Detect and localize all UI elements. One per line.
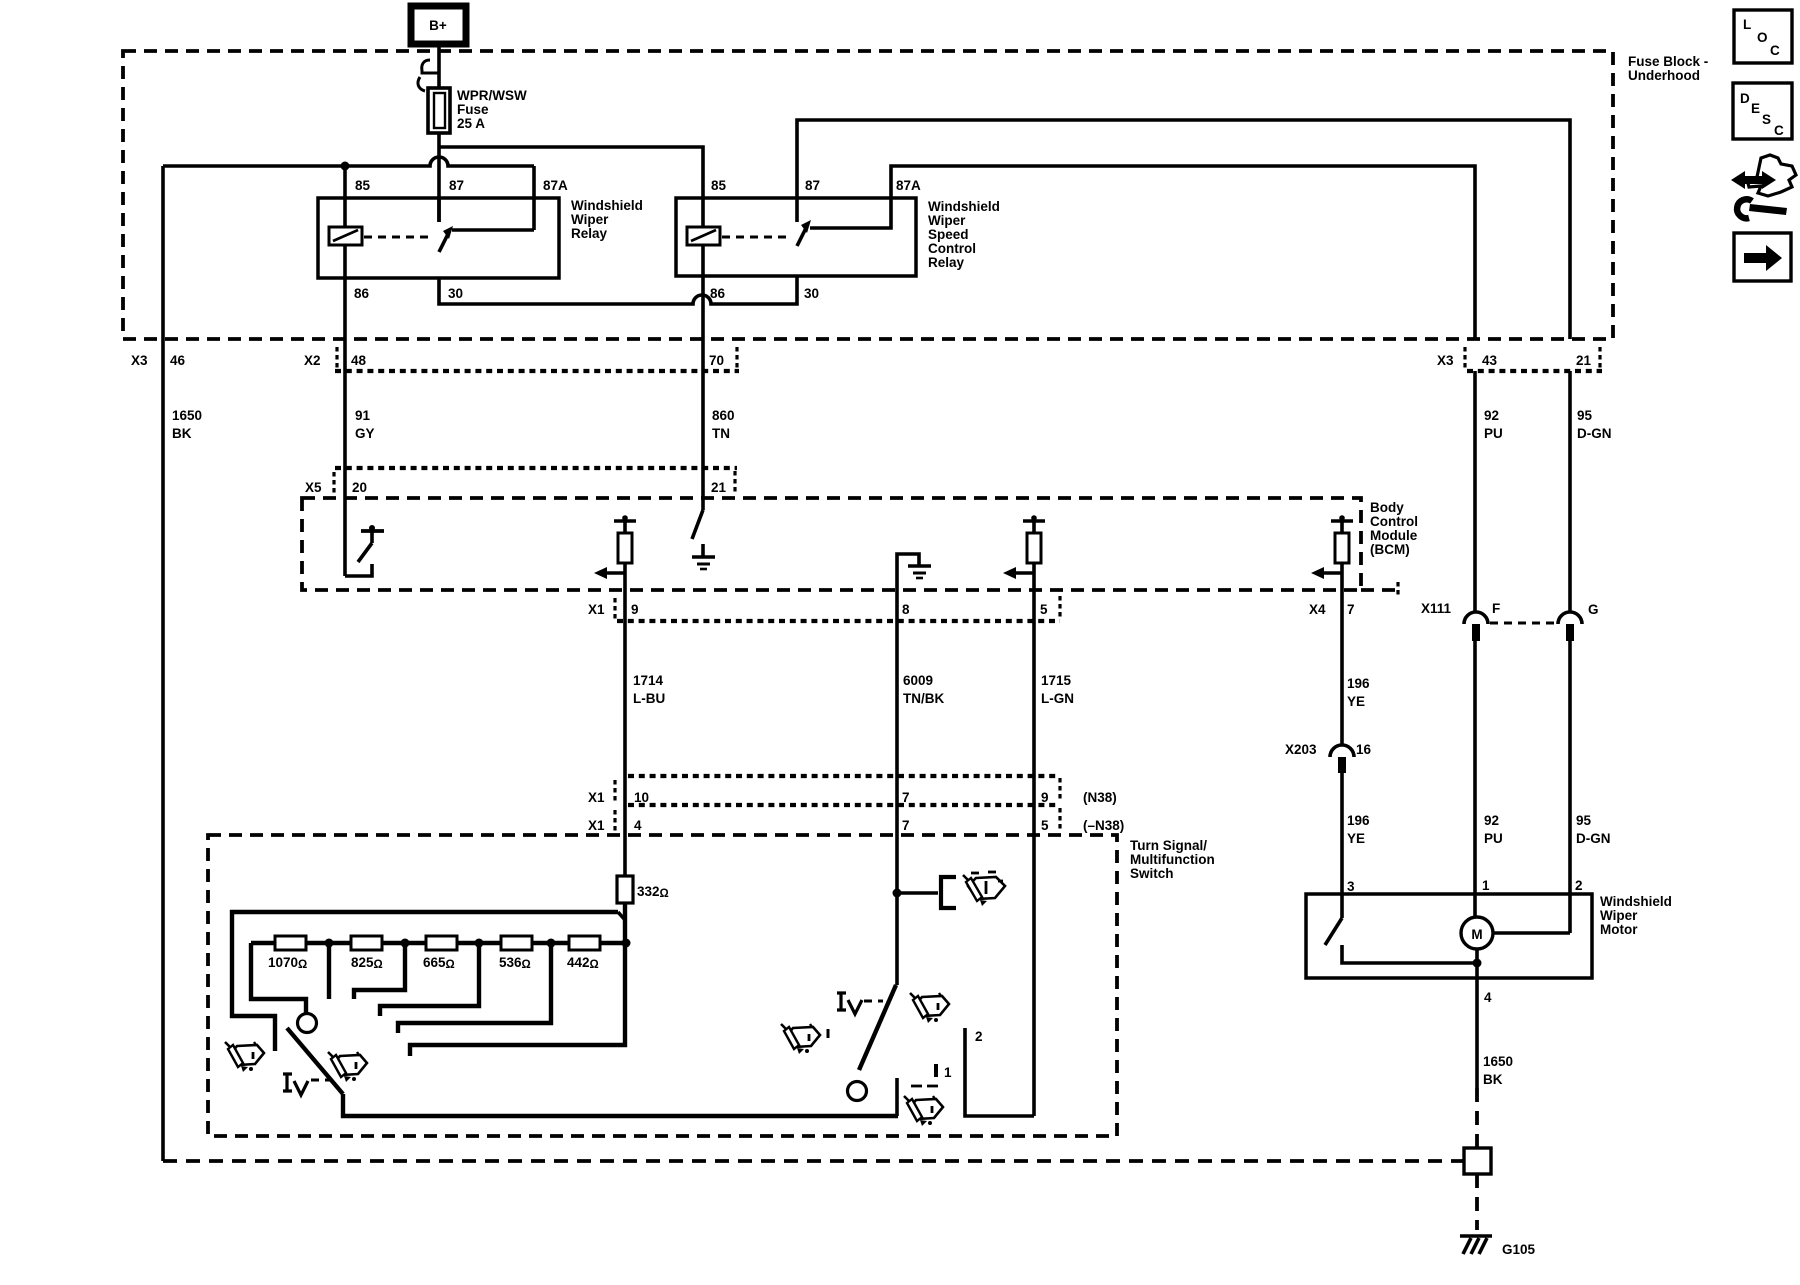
svg-text:X203: X203 (1285, 742, 1317, 757)
svg-text:(–N38): (–N38) (1083, 818, 1124, 833)
svg-text:Windshield: Windshield (1600, 894, 1672, 909)
wire: 6009 TN/BK X1-8 down (895, 590, 899, 985)
svg-text:4: 4 (1484, 990, 1492, 1005)
wiper icon wash left (781, 1024, 820, 1054)
svg-text:1650: 1650 (1483, 1054, 1513, 1069)
mist dashes and icon bottom (911, 1085, 922, 1088)
ground G105 (1460, 1234, 1492, 1238)
wash switch mist contact branch (893, 889, 902, 898)
svg-text:1714: 1714 (633, 673, 664, 688)
svg-text:Motor: Motor (1600, 922, 1638, 937)
svg-text:860: 860 (712, 408, 735, 423)
svg-text:Speed: Speed (928, 227, 969, 242)
svg-text:X1: X1 (588, 602, 605, 617)
svg-text:G: G (1588, 602, 1599, 617)
mist contact bracket (941, 877, 956, 908)
svg-text:70: 70 (709, 353, 724, 368)
legend LOC box (1734, 10, 1792, 63)
relay K1 coil (329, 227, 362, 245)
svg-text:Fuse Block -: Fuse Block - (1628, 54, 1708, 69)
svg-text:Switch: Switch (1130, 866, 1174, 881)
wire: tap 2 contact step (354, 943, 405, 999)
BCM internal ground for 6009 TN/BK (897, 554, 919, 590)
svg-text:YE: YE (1347, 694, 1365, 709)
svg-text:7: 7 (902, 818, 910, 833)
connector row X2 dotted face (335, 369, 739, 373)
BCM wiper relay driver switch (361, 529, 384, 533)
svg-text:D: D (1740, 91, 1750, 106)
connector row X1 pins 4 7 5 (-N38) (628, 803, 1056, 807)
svg-text:9: 9 (1041, 790, 1049, 805)
resistor 332 ohm (617, 876, 633, 903)
svg-text:D-GN: D-GN (1576, 831, 1611, 846)
wire: 92 PU to motor pin 1 (1473, 641, 1477, 917)
wire: tap 3 contact step (380, 943, 479, 1016)
wire: tap 4 contact step (398, 943, 551, 1033)
svg-text:Module: Module (1370, 528, 1418, 543)
intermittent symbol left (283, 1074, 292, 1091)
legend forward arrow box (1734, 233, 1791, 281)
relay K1 87A contact bar (452, 228, 534, 232)
svg-text:D-GN: D-GN (1577, 426, 1612, 441)
mist wiper icon top (963, 872, 1005, 906)
turn signal multifunction switch dashed border (208, 835, 1117, 1136)
relay K1 windshield wiper relay box (318, 198, 559, 278)
svg-text:Windshield: Windshield (928, 199, 1000, 214)
svg-text:21: 21 (711, 480, 727, 495)
svg-text:TN: TN (712, 426, 730, 441)
rotary wiper blade (287, 1028, 343, 1094)
svg-text:Multifunction: Multifunction (1130, 852, 1215, 867)
svg-text:1650: 1650 (172, 408, 202, 423)
svg-text:7: 7 (1347, 602, 1355, 617)
svg-text:C: C (1770, 43, 1780, 58)
svg-text:16: 16 (1356, 742, 1372, 757)
wire: 95 D-GN to BCM connector X111 G (1568, 371, 1572, 611)
svg-text:43: 43 (1482, 353, 1498, 368)
svg-text:1715: 1715 (1041, 673, 1072, 688)
wiper icon low position (328, 1052, 367, 1082)
battery feed B+ terminal box (411, 6, 466, 44)
wire: 1650 BK ground wire left column (161, 166, 165, 1161)
top rail of delay ladder (232, 912, 618, 1051)
svg-text:G105: G105 (1502, 1242, 1536, 1257)
svg-text:48: 48 (351, 353, 367, 368)
BCM switch to ground for 860 TN (692, 510, 703, 539)
svg-text:87A: 87A (543, 178, 568, 193)
body control module BCM dashed border (302, 498, 1361, 590)
svg-text:S: S (1762, 112, 1771, 127)
svg-text:L-GN: L-GN (1041, 691, 1074, 706)
wire: relay K2 pin 86 down 860 TN (701, 245, 705, 510)
svg-text:Turn Signal/: Turn Signal/ (1130, 838, 1207, 853)
dashed route to G105 (1475, 1174, 1479, 1230)
svg-text:9: 9 (631, 602, 639, 617)
svg-text:4: 4 (634, 818, 642, 833)
wire: 332 ohm down to ladder junction (410, 903, 625, 1056)
wire: relay K1 87A riser (532, 166, 536, 230)
svg-text:1: 1 (1482, 878, 1490, 893)
svg-text:X111: X111 (1421, 601, 1452, 616)
relay K2 87A contact bar and riser to 92 PU feed (810, 166, 1475, 339)
wire: fuse feed to relay K2 pin 85 (439, 147, 703, 227)
svg-text:Fuse: Fuse (457, 102, 489, 117)
svg-text:X3: X3 (131, 353, 148, 368)
wire: chain left end to position contact (251, 943, 306, 1013)
svg-text:C: C (1774, 123, 1784, 138)
svg-text:(BCM): (BCM) (1370, 542, 1410, 557)
BCM internal resistor to X1-5 driver (1023, 519, 1045, 523)
relay K2 pin 87 stationary contact riser to bus (797, 120, 1570, 339)
svg-text:B+: B+ (429, 18, 447, 33)
svg-text:L: L (1743, 17, 1751, 32)
svg-text:86: 86 (354, 286, 370, 301)
resistor 442 ohm (569, 936, 600, 950)
wire: blade to bottom rail (343, 1094, 898, 1116)
wire: 95 D-GN to motor pin 2 (1568, 641, 1572, 933)
svg-text:YE: YE (1347, 831, 1365, 846)
svg-text:91: 91 (355, 408, 371, 423)
legend DESC box (1733, 83, 1792, 139)
relay K2 windshield wiper speed control relay box (676, 198, 916, 276)
svg-text:95: 95 (1577, 408, 1593, 423)
svg-text:O: O (1757, 30, 1768, 45)
svg-text:Control: Control (1370, 514, 1418, 529)
svg-text:95: 95 (1576, 813, 1592, 828)
svg-text:X3: X3 (1437, 353, 1454, 368)
svg-text:196: 196 (1347, 813, 1370, 828)
svg-text:85: 85 (711, 178, 727, 193)
svg-text:BK: BK (1483, 1072, 1503, 1087)
svg-text:87: 87 (449, 178, 464, 193)
wash rotary contact ring (848, 1082, 867, 1101)
svg-text:21: 21 (1576, 353, 1592, 368)
svg-text:87: 87 (805, 178, 820, 193)
svg-text:86: 86 (710, 286, 726, 301)
wire: motor to pin 2 (1493, 931, 1570, 935)
svg-text:92: 92 (1484, 408, 1499, 423)
node: junction relay K1 pin 85 on bus (341, 162, 350, 171)
svg-text:25 A: 25 A (457, 116, 485, 131)
wire: 92 PU to BCM connector X111 F (1473, 371, 1477, 611)
svg-text:Body: Body (1370, 500, 1404, 515)
svg-text:X5: X5 (305, 480, 322, 495)
wire: 196 YE to motor pin 3 (1340, 773, 1344, 894)
svg-text:2: 2 (975, 1029, 983, 1044)
svg-text:GY: GY (355, 426, 375, 441)
svg-text:Wiper: Wiper (1600, 908, 1638, 923)
contact 2 and wire to 1715 (965, 1028, 1034, 1116)
resistor 1070 ohm (275, 936, 306, 950)
wire: motor pin 4 ground 1650 BK (1475, 963, 1479, 1088)
svg-text:E: E (1751, 101, 1760, 116)
jog from top rail to 332 wire (618, 912, 625, 920)
BCM internal resistor to X4-7 driver (1331, 519, 1353, 523)
svg-text:TN/BK: TN/BK (903, 691, 944, 706)
svg-text:10: 10 (634, 790, 649, 805)
connector row X3 dotted face (1467, 369, 1602, 373)
relay K2 coil (687, 227, 720, 245)
svg-text:1: 1 (944, 1065, 952, 1080)
svg-text:(N38): (N38) (1083, 790, 1117, 805)
svg-text:M: M (1471, 927, 1482, 942)
fuse block underhood dashed border (123, 51, 1613, 339)
wire: relay K1 pin 86 down 91 GY (343, 245, 347, 576)
dashed ground route from left column (163, 1159, 1464, 1163)
svg-text:Relay: Relay (928, 255, 965, 270)
svg-text:6009: 6009 (903, 673, 933, 688)
svg-text:F: F (1492, 601, 1500, 616)
svg-text:BK: BK (172, 426, 192, 441)
svg-text:Windshield: Windshield (571, 198, 643, 213)
wire: relay K1 pin 30 to relay K2 pin 30 with hop (439, 276, 797, 304)
svg-text:X2: X2 (304, 353, 321, 368)
intermittent symbol right (837, 993, 846, 1010)
rotary contact ring (298, 1014, 317, 1033)
svg-text:30: 30 (804, 286, 819, 301)
wash switch blade (859, 985, 896, 1070)
node: motor bottom junction (1473, 959, 1482, 968)
relay K1 pin 87 stationary contact (437, 198, 441, 222)
svg-text:85: 85 (355, 178, 371, 193)
svg-text:WPR/WSW: WPR/WSW (457, 88, 527, 103)
wire: tap 1 contact stub (327, 943, 331, 999)
motor park switch (1340, 894, 1344, 918)
wire: 1714 L-BU X1-9 down to 332 ohm (623, 590, 627, 876)
contact 1 tick and label (934, 1064, 938, 1077)
motor M circle (1461, 917, 1493, 949)
svg-text:X1: X1 (588, 790, 605, 805)
fuse WPR/WSW 25A (428, 88, 450, 133)
relay K2 movable blade (797, 228, 806, 246)
svg-text:3: 3 (1347, 879, 1355, 894)
BCM internal resistor to X1-9 driver (614, 519, 636, 523)
svg-text:5: 5 (1041, 818, 1049, 833)
wire: 196 YE X4-7 down to X203 (1340, 590, 1344, 745)
svg-text:20: 20 (352, 480, 367, 495)
svg-text:L-BU: L-BU (633, 691, 665, 706)
svg-text:PU: PU (1484, 831, 1503, 846)
svg-text:X1: X1 (588, 818, 605, 833)
wire: 1715 L-GN X1-5 down (1032, 590, 1036, 1116)
svg-text:PU: PU (1484, 426, 1503, 441)
svg-text:5: 5 (1040, 602, 1048, 617)
svg-text:7: 7 (902, 790, 910, 805)
svg-text:Wiper: Wiper (571, 212, 609, 227)
windshield wiper motor box (1306, 894, 1592, 978)
svg-text:Wiper: Wiper (928, 213, 966, 228)
legend service icon arrows and wrench (1731, 171, 1776, 189)
connector row X5 dotted face (335, 466, 737, 470)
svg-text:8: 8 (902, 602, 910, 617)
wiper icon wash right (910, 993, 949, 1023)
resistor 825 ohm (351, 936, 382, 950)
fusible link hook symbol (422, 60, 438, 73)
svg-text:46: 46 (170, 353, 186, 368)
svg-text:30: 30 (448, 286, 463, 301)
dashed ground route down (1475, 1088, 1479, 1148)
svg-text:2: 2 (1575, 878, 1583, 893)
wiper icon off position (225, 1042, 264, 1072)
inline splice box (1464, 1148, 1491, 1174)
svg-text:196: 196 (1347, 676, 1370, 691)
relay K1 coil link dashes (364, 236, 432, 239)
svg-text:92: 92 (1484, 813, 1499, 828)
svg-text:Control: Control (928, 241, 976, 256)
node: chain junction dots (325, 939, 334, 948)
relay K2 coil link dashes (722, 236, 790, 239)
wire: relay K1 pin 85 drop (343, 166, 347, 227)
relay K1 movable blade (439, 234, 448, 252)
svg-text:Relay: Relay (571, 226, 608, 241)
wire: left ground bus y166 with hop over fuse wire (163, 157, 534, 166)
svg-text:Underhood: Underhood (1628, 68, 1700, 83)
resistor 536 ohm (501, 936, 532, 950)
connector row X1 dotted face (617, 619, 1060, 623)
wire: wash common stub to rail (895, 1078, 899, 1116)
svg-text:87A: 87A (896, 178, 921, 193)
connector row X1 pins 10 7 9 (N38) (628, 774, 1056, 778)
resistor chain bus (251, 941, 626, 945)
svg-text:X4: X4 (1309, 602, 1326, 617)
resistor 665 ohm (426, 936, 457, 950)
wire: B+ feed down to fuse and relay K1 pin 87 (437, 44, 441, 222)
